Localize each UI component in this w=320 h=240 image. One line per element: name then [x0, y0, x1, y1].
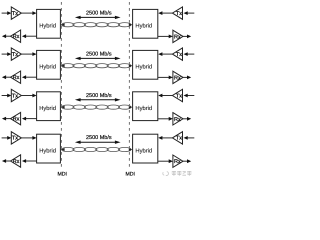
svg-text:MDI: MDI [125, 172, 135, 178]
svg-text:MDI: MDI [57, 172, 67, 178]
